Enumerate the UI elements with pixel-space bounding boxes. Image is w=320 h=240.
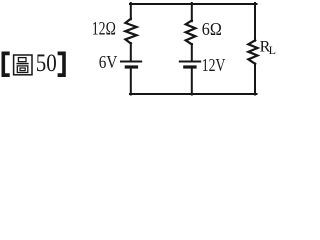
figure caption character 圖: [14, 55, 32, 75]
svg-text:12Ω: 12Ω: [92, 20, 116, 40]
wire right upper: [254, 3, 256, 41]
svg-text:6V: 6V: [99, 52, 118, 72]
wire top: [130, 3, 257, 5]
wire left lower: [130, 69, 132, 95]
wire middle lower: [191, 69, 193, 95]
wire left upper: [130, 3, 132, 19]
wire middle mid: [191, 44, 193, 61]
figure caption bracket left 【: [2, 52, 10, 78]
svg-text:12V: 12V: [202, 55, 226, 75]
svg-text:6Ω: 6Ω: [202, 19, 222, 39]
battery B1 6V plate long: [121, 61, 141, 63]
battery B2 12V plate long: [180, 61, 200, 63]
resistor R1 12Ω zigzag: [125, 19, 136, 44]
wire right lower: [254, 64, 256, 95]
figure caption bracket right 】: [58, 52, 66, 78]
wire bottom: [130, 93, 257, 95]
battery B1 6V plate short: [126, 65, 136, 68]
wire left middle: [130, 43, 132, 61]
svg-text:L: L: [269, 43, 276, 57]
resistor RL zigzag: [248, 40, 257, 64]
wire middle upper: [191, 3, 193, 21]
svg-text:50: 50: [36, 50, 57, 77]
battery B2 12V plate short: [185, 65, 195, 68]
resistor R2 6Ω zigzag: [186, 21, 196, 45]
